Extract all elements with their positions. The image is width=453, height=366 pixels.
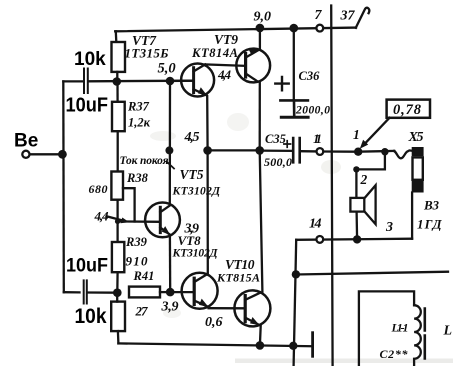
resistor R40 27: [111, 302, 125, 332]
wire VT7 base from node: [170, 80, 193, 83]
svg-text:С36: С36: [299, 69, 321, 83]
svg-text:11: 11: [313, 131, 322, 146]
svg-text:С2**: С2**: [380, 347, 409, 361]
svg-text:R38: R38: [126, 171, 149, 185]
paper smudges: [150, 113, 453, 363]
node junction VT9/rail: [256, 24, 265, 33]
wire VT7 collector to VT9 base: [205, 64, 244, 65]
wire speaker to pin14 line: [355, 212, 358, 240]
wire bottom node y292: [64, 291, 117, 294]
svg-text:3: 3: [385, 220, 393, 235]
wire rail corner into R36: [115, 31, 118, 42]
wire bottom ground rail: [118, 343, 312, 346]
svg-text:37: 37: [340, 9, 356, 24]
node junction VT7 emitter / VT8 collector / mid wire: [203, 146, 212, 155]
svg-text:1: 1: [353, 127, 360, 142]
connector 37 bend symbol: [356, 8, 370, 28]
capacitor C36 plus sign: [275, 77, 288, 90]
resistor R41: [129, 287, 160, 298]
wire R40 bottom corner: [117, 331, 120, 343]
node pin2 branch junction: [381, 148, 388, 155]
wire pin 2 branch to speaker: [356, 152, 385, 198]
wire R38 to R39: [116, 200, 118, 242]
node 1 junction: [354, 148, 362, 156]
svg-text:0,78: 0,78: [393, 102, 422, 118]
wire VT10 emitter to ground rail: [259, 326, 262, 346]
svg-text:5,0: 5,0: [158, 61, 176, 77]
svg-text:10k: 10k: [75, 305, 107, 328]
connector bus vertical line: [331, 6, 332, 366]
resistor R36 (10k annotated): [112, 42, 126, 72]
inductor core dashes: [423, 309, 426, 359]
arrow tok pokoya tail: [167, 162, 175, 169]
pin 14 terminal: [316, 236, 323, 243]
node junction x296/y274: [292, 270, 300, 278]
wire VT8 collector up to mid node: [206, 150, 208, 274]
svg-text:R37: R37: [127, 100, 150, 114]
svg-text:2000,0: 2000,0: [295, 105, 330, 117]
wire R37 top stub: [116, 82, 118, 102]
svg-text:10k: 10k: [74, 49, 106, 70]
svg-text:R41: R41: [133, 269, 155, 283]
connector X5 plug ring: [413, 157, 423, 179]
svg-text:3,9: 3,9: [161, 300, 179, 315]
capacitor C35 plus sign: [284, 141, 291, 148]
wire VT5 base wire: [118, 220, 159, 223]
transistor VT5 KT3102D: [145, 203, 180, 238]
svg-text:L: L: [443, 324, 453, 339]
ground rail end plate: [311, 333, 314, 357]
wire X5 sleeve down: [411, 193, 413, 239]
svg-text:X5: X5: [408, 130, 424, 145]
svg-text:R39: R39: [125, 235, 148, 249]
node Be input terminal: [22, 151, 29, 158]
node junction Be/bus: [58, 150, 67, 159]
node 4,5 measurement dot: [165, 146, 173, 154]
node junction base wire / VT5 collector line: [166, 77, 175, 86]
wire R41 right to VT8 base junction: [160, 291, 170, 293]
wire VT9 collector to rail: [259, 28, 261, 49]
svg-text:680: 680: [89, 182, 108, 196]
arrow callout to node 1: [365, 118, 390, 144]
wire pin 11 to node 1: [323, 150, 355, 152]
svg-text:500,0: 500,0: [264, 155, 292, 169]
connector X5 plug tip: [412, 147, 424, 156]
svg-text:7: 7: [315, 8, 323, 23]
node junction VT5 emitter / R41 / VT8 base: [166, 288, 175, 297]
node corner dot pin2: [353, 166, 359, 172]
svg-text:Be: Be: [14, 131, 38, 152]
svg-text:2: 2: [360, 172, 368, 187]
svg-text:VT9: VT9: [214, 32, 238, 47]
wire mid node to output node: [208, 149, 260, 151]
transistor VT8 KT3102D: [182, 273, 218, 309]
wire R40 top stub: [116, 293, 118, 302]
capacitor C36 2000,0 wire from rail: [293, 28, 295, 99]
wire VT5 emitter down: [169, 235, 172, 292]
svg-text:9,0: 9,0: [254, 10, 272, 25]
svg-text:L1-1: L1-1: [391, 321, 409, 335]
svg-text:0,6: 0,6: [205, 315, 223, 330]
box 0,78 callout: [387, 100, 430, 118]
wire R39 bottom: [116, 272, 119, 293]
node output midpoint junction: [255, 146, 264, 155]
speaker B3 horn: [364, 185, 375, 224]
node junction top cap / R36 / R37: [113, 77, 122, 86]
box L1-1 module outline: [359, 291, 414, 366]
svg-text:4,4: 4,4: [94, 209, 110, 224]
resistor R39 910: [112, 242, 124, 272]
wire VT9 emitter down to output node: [259, 83, 261, 151]
wire output node down to VT10 collector: [260, 150, 263, 291]
svg-text:14: 14: [309, 217, 322, 232]
wire VT8 emitter to VT10 base: [209, 307, 245, 309]
wire R37 to R38: [117, 131, 119, 171]
svg-text:В3: В3: [423, 198, 440, 213]
node junction VT10 emitter / ground rail: [256, 341, 265, 350]
wire input node y81: [63, 80, 193, 83]
node VT5 base tap junction: [115, 219, 120, 224]
connector X5 plug sleeve: [412, 181, 424, 193]
wire node 1 to plug squiggle: [358, 150, 394, 153]
svg-text:VT5: VT5: [180, 167, 204, 182]
svg-text:27: 27: [135, 304, 149, 319]
wire VT7 emitter down to mid node: [206, 96, 209, 150]
svg-text:4,4: 4,4: [217, 67, 232, 82]
transistor VT10 KT815A: [234, 290, 270, 326]
svg-text:КТ3102Д: КТ3102Д: [172, 248, 219, 260]
svg-text:Ток покоя: Ток покоя: [120, 155, 169, 167]
node junction speaker/pin14 wire: [353, 235, 361, 243]
capacitor C35 500,0 plates: [293, 138, 300, 162]
wire R38 tap to VT5 base: [123, 188, 135, 221]
wire flexible squiggle to X5: [394, 150, 412, 158]
capacitor C36 plates: [280, 99, 308, 102]
speaker B3 box: [350, 198, 364, 212]
resistor R38 680: [111, 172, 123, 200]
wire R36 bottom stub: [116, 72, 118, 82]
pin 7 terminal on rail: [316, 25, 323, 32]
resistor R37 1,2k: [112, 102, 125, 131]
svg-text:КТ815А: КТ815А: [216, 271, 260, 285]
capacitor C34 (10uF annotated, bottom): [84, 280, 87, 303]
transistor VT9 KT814A: [236, 49, 270, 83]
inductor L1-1 coil: [414, 305, 421, 366]
svg-text:4,5: 4,5: [184, 130, 200, 145]
arrow 4,4 pointer: [107, 216, 125, 221]
capacitor C33 (10uF annotated, top): [84, 69, 88, 94]
wire left vertical input bus: [62, 81, 65, 292]
svg-text:КТ3102Д: КТ3102Д: [172, 186, 222, 198]
wire VT5 collector up to node 5,0: [169, 81, 171, 205]
svg-text:10uF: 10uF: [66, 95, 109, 117]
node junction C36/rail: [290, 24, 299, 33]
wire pin 14 horizontal: [296, 239, 412, 240]
wire vertical x296 down: [294, 240, 297, 366]
wire horizontal y274: [296, 272, 448, 275]
svg-text:VT8: VT8: [178, 233, 202, 248]
svg-text:1ГД: 1ГД: [417, 217, 443, 232]
svg-text:1,2к: 1,2к: [128, 116, 151, 130]
wire C35 to pin 11: [301, 150, 316, 152]
node junction x296/ground rail: [289, 342, 297, 350]
pin 11 terminal: [317, 148, 324, 155]
svg-text:КТ814А: КТ814А: [191, 46, 238, 60]
svg-text:910: 910: [126, 254, 149, 269]
wire top supply rail: [115, 28, 356, 32]
node junction R39/R40/R41/cap: [113, 288, 122, 297]
svg-text:1Т315Б: 1Т315Б: [125, 46, 169, 61]
svg-text:С35: С35: [265, 132, 286, 146]
wire VT8 base: [170, 291, 193, 293]
wire output to C35: [260, 149, 292, 152]
transistor VT7 1T315B: [181, 64, 214, 97]
svg-text:10uF: 10uF: [66, 256, 108, 277]
wire Be to bus: [30, 153, 62, 155]
